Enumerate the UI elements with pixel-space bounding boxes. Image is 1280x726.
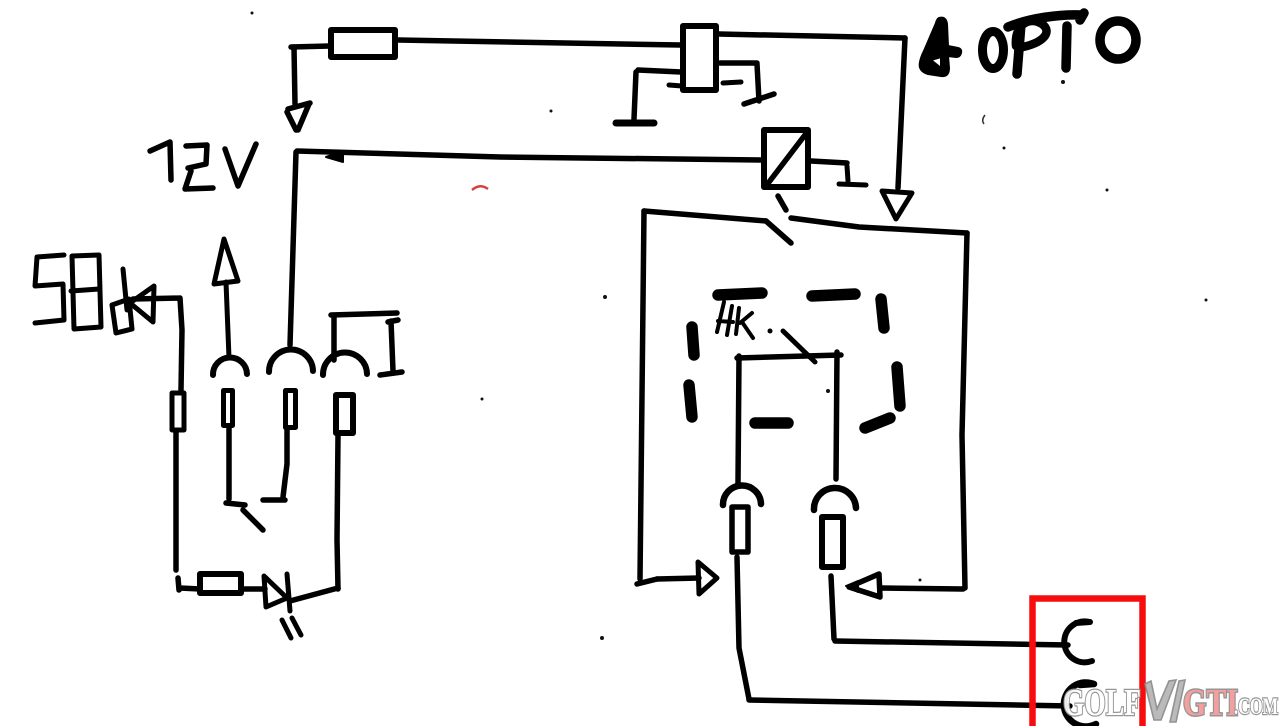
lamp L5 arc [814,488,856,510]
relay box bottom foot [637,579,657,584]
wire RL down-diagonal [737,557,749,699]
dash d7 [755,417,788,429]
dash d1 [718,293,762,295]
wire Ra down [173,433,179,570]
wire foot to Re [178,578,200,590]
opto coupler U1 (vertical box top-center) [683,26,716,90]
switch S1 lever [243,510,263,530]
switch contact dash near U1 [744,94,774,104]
arrowhead on 12V bus (filled, pointing left) [326,151,343,162]
wire R1 right lead to opto box [398,40,680,45]
resistor Rc [286,391,296,428]
red connector box [1033,599,1143,726]
wire left lead of R1 [291,46,330,47]
relay box outline left edge [640,211,644,579]
resistor RL [732,507,748,552]
switch S1 fixed dash [226,503,245,505]
wire down to ground [634,72,636,119]
dash d6 [897,367,900,406]
wire to red box lamp B [749,700,1070,706]
wire 12V bus down to lamp L2 [290,152,296,345]
switch S2 lever (inside relay box) [783,331,815,362]
wire U1 top-right to right drop [719,34,905,38]
lamp L3 arc [323,353,367,375]
resistor Rd [336,395,353,433]
relay box top edge [644,211,766,221]
wire left contact down [738,356,739,483]
wire Rd down [337,436,338,589]
pin tick U1 bottom-left [669,85,682,86]
terminal I (right of L3 hook) [380,320,402,375]
lamp L2 arc [269,349,313,372]
svg-text:.COM: .COM [1234,694,1278,719]
label 4 OPTO [920,13,1136,76]
lamp LB in red box [1064,682,1096,726]
wire to right arrow [657,578,699,579]
terminal tick horizontal [839,184,866,185]
diode D1 cathode bar [123,269,127,310]
wire right arrow lead [880,588,963,589]
relay box top switch lever [766,221,791,243]
arrow down (hollow, below R1 left lead) [287,103,310,130]
svg-text:GOLF: GOLF [1063,682,1141,724]
dash d3 [881,299,884,328]
relay K1 box with diagonal (slash box) [764,130,808,187]
arrow right (hollow) [698,562,717,594]
wire D2 to Rd leg [290,588,338,601]
red smudge [472,186,488,190]
diode D2 triangle [264,576,287,607]
speck arc [983,115,985,124]
label 58 [35,255,101,329]
dash d5 [689,385,692,417]
equals marks below D2 [282,618,301,638]
dash d8 [865,418,890,428]
relay box right edge [962,233,967,588]
stray specks [251,12,1208,641]
wire vertical drop right [898,38,905,188]
diode D1 (left, by 58 label) [130,286,154,322]
resistor R1 (top-left horizontal) [331,30,395,57]
lamp LA in red box [1064,621,1092,662]
wire Rb down to switch [226,428,232,499]
dash d2 [812,294,855,296]
resistor Ra [172,393,184,430]
wire L3 top hook [331,313,397,360]
arrow left (into box, right side) [849,574,880,597]
dash below K1 [778,196,786,210]
wire right contact down [836,352,837,479]
node 12V bus corner [297,151,761,160]
wire Rc down with jog [283,430,287,497]
dashed marker strokes (inner dashed box) [689,293,900,428]
resistor Rb [224,391,233,426]
label 12V [150,142,256,189]
arrow down (hollow, into relay box) [882,191,912,219]
lamp L1 arc [213,357,247,375]
relay box top edge right part [791,218,967,233]
resistor RR [822,517,843,567]
wire to red box lamp A [835,641,1068,645]
wire RR down [831,576,834,639]
wire U1 left lower lead [638,70,681,72]
label HK [717,302,753,338]
switch S1 other contact dash [263,497,285,503]
contact rail horizontal [737,355,841,358]
lamp L4 arc [723,485,761,505]
wire U1 right lead [720,63,759,101]
pin tick U1 bottom-right [723,82,741,83]
diode D1 bar quad [112,299,132,333]
arrow up (hollow, terminal 2) [214,239,238,358]
wire D1 to resistor Ra [133,298,182,390]
dash d4 [692,327,694,355]
resistor Re (horizontal bottom-left) [200,574,241,593]
junction dot [768,329,773,334]
ground bar [616,120,654,127]
watermark GOLFV/GTI.com [1063,680,1278,724]
wire K1 right lead [811,161,847,163]
diode D2 cathode bar [287,574,290,611]
wire Re to D2 [244,586,265,592]
svg-text:GTI: GTI [1183,682,1238,724]
terminal tick vertical [847,166,848,181]
wire vertical drop from R1 left lead [294,47,295,104]
